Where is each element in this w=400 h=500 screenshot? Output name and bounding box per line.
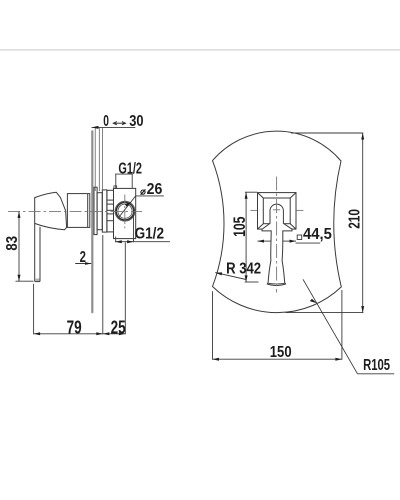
- svg-text:210: 210: [347, 209, 364, 229]
- svg-text:79: 79: [67, 318, 82, 338]
- svg-text:25: 25: [111, 318, 126, 338]
- svg-text:150: 150: [270, 344, 292, 361]
- svg-text:26: 26: [147, 181, 163, 198]
- svg-text:G1/2: G1/2: [118, 160, 142, 177]
- svg-text:105: 105: [230, 216, 249, 236]
- svg-text:R105: R105: [363, 357, 390, 374]
- svg-text:R 342: R 342: [226, 261, 261, 278]
- svg-text:G1/2: G1/2: [135, 226, 164, 243]
- svg-text:2: 2: [80, 249, 86, 266]
- svg-text:83: 83: [4, 236, 21, 251]
- svg-text:30: 30: [129, 113, 143, 130]
- svg-text:44,5: 44,5: [303, 226, 332, 243]
- svg-text:0: 0: [103, 113, 109, 130]
